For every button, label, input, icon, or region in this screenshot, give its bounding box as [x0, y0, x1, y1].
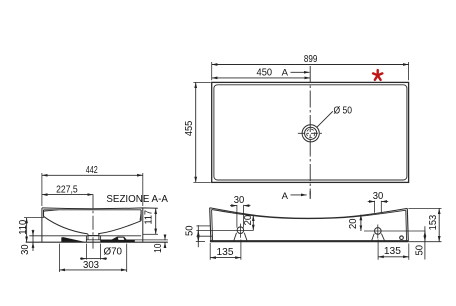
dimension 455 extension bottom [193, 181, 210, 183]
elevation bottom line [210, 240, 409, 242]
svg-text:30: 30 [373, 191, 384, 202]
svg-text:Ø70: Ø70 [104, 247, 123, 258]
elevation left edge inner [212, 210, 213, 242]
section rim second line [44, 209, 142, 211]
elevation right hole horizontal centerline [364, 230, 426, 232]
elevation left hole circle [237, 227, 244, 234]
plan inner rim rect [214, 85, 407, 180]
dimension 50 left lower tick [196, 235, 212, 237]
section marker A top arrow [291, 71, 310, 73]
dimension 153 extension top [408, 207, 441, 209]
drain leader line [317, 111, 333, 127]
section black band right [101, 240, 135, 242]
dimension 30 left extensions [236, 205, 238, 228]
dimension 303 line [59, 269, 126, 271]
dimension 117 bottom tick [143, 233, 158, 235]
dimension 110 top tick [24, 217, 44, 219]
dimension 442 extension right [142, 173, 144, 206]
dimension 10 line [164, 235, 166, 241]
dimension 442 line [42, 174, 143, 176]
dimension 50 left tick [196, 225, 210, 227]
dimension Ø70 extension right [100, 244, 102, 260]
section rim top line [42, 207, 158, 210]
dimension 450 line [212, 77, 311, 79]
elevation right edge outer [407, 208, 408, 241]
svg-text:135: 135 [217, 247, 234, 258]
section left wall inner [43, 210, 45, 217]
section marker A bottom arrow [291, 194, 307, 196]
dimension 20 right line [360, 215, 362, 231]
elevation right edge inner [405, 210, 408, 241]
dimension 30 right line and arrows [368, 201, 375, 203]
svg-text:A: A [282, 191, 289, 202]
dimension 135 left line [210, 257, 241, 259]
dimension 135 right line [378, 256, 409, 258]
section black fin left [61, 237, 85, 242]
dimension 455 line [195, 82, 197, 182]
elevation left hole vertical centerline [239, 224, 241, 238]
svg-text:227,5: 227,5 [56, 184, 78, 195]
elevation right hole vertical centerline [377, 225, 379, 239]
section left wall outer [41, 208, 43, 242]
dimension 30 line section [32, 230, 34, 251]
section drain outer wall right [100, 235, 102, 242]
section drain outer wall left [85, 235, 87, 242]
svg-text:153: 153 [428, 215, 439, 231]
elevation left foot right slant [244, 233, 247, 242]
svg-text:30: 30 [234, 195, 245, 206]
dimension 153 line [438, 208, 440, 241]
dimension 303 extension left [58, 244, 60, 272]
elevation right foot right slant [381, 234, 385, 242]
section right rim lip wedge [140, 212, 141, 220]
elevation bottom right extension [408, 241, 441, 243]
elevation left foot left slant [234, 233, 237, 242]
drain outer circle [302, 125, 319, 142]
dimension 30 section arrows [32, 231, 34, 236]
section right wall inner [140, 210, 142, 221]
dimension 899 line [212, 64, 409, 66]
section centerline [92, 194, 94, 248]
red asterisk [373, 70, 382, 80]
svg-text:SEZIONE A-A: SEZIONE A-A [106, 194, 168, 205]
dimension 899 extension left [211, 62, 213, 80]
dimension 442 extension left [41, 173, 43, 206]
section marker A bottom tick [309, 191, 311, 199]
section bowl curve left [44, 216, 88, 234]
svg-text:20: 20 [348, 218, 359, 229]
drain middle circle [305, 127, 317, 139]
svg-text:10: 10 [153, 243, 164, 253]
svg-text:30: 30 [20, 244, 31, 255]
elevation bottom left extension [196, 241, 205, 243]
svg-text:A: A [282, 67, 289, 78]
dimension 135 left extensions [209, 243, 211, 260]
section base underside right line [101, 239, 168, 241]
dimension 50 left line [197, 225, 199, 247]
section foot bump white notch [118, 238, 124, 240]
drain inner dashed circle [307, 129, 315, 137]
elevation right hole circle [375, 228, 382, 235]
dimension 227,5 line [42, 194, 93, 196]
dimension 30 right extensions [374, 201, 376, 213]
svg-text:110: 110 [18, 220, 29, 235]
dimension 899 extension right [408, 62, 410, 80]
plan centerline (section line A-A) [309, 66, 311, 195]
section base front edge line [29, 235, 141, 237]
svg-text:899: 899 [304, 54, 318, 65]
dimension 117 line [155, 208, 157, 234]
elevation top back rim curve [212, 210, 406, 219]
section bowl curve right [98, 221, 141, 234]
dimension 135 right extensions [377, 240, 379, 260]
dimension Ø70 line [80, 258, 86, 260]
svg-text:303: 303 [83, 260, 99, 271]
section drain inner wall left [87, 234, 89, 240]
drain horizontal centerline [298, 132, 324, 134]
section left rim lip wedge [44, 210, 59, 211]
elevation left hole horizontal centerline [196, 229, 253, 231]
section drain top line [88, 234, 99, 236]
plan outer rect [212, 82, 409, 182]
svg-text:135: 135 [384, 246, 401, 257]
section drain bottom line [86, 239, 100, 241]
dimension 455 extension top [193, 81, 210, 83]
elevation left edge outer [210, 208, 211, 241]
svg-text:20: 20 [243, 215, 254, 226]
svg-text:50: 50 [414, 245, 425, 256]
elevation drain outlet small circle [400, 236, 404, 240]
section drain inner wall right [98, 234, 100, 240]
section right wall outer [142, 208, 144, 242]
dimension 303 extension right [126, 244, 128, 272]
section black foot bump right [111, 237, 127, 240]
dimension 110 line [26, 218, 28, 243]
dimension 30 left line and arrows [230, 205, 237, 207]
svg-text:Ø 50: Ø 50 [334, 106, 353, 117]
dimension 20 left line [252, 216, 254, 231]
svg-text:442: 442 [86, 165, 98, 176]
svg-text:117: 117 [144, 210, 155, 225]
elevation top front rim curve [210, 208, 408, 219]
elevation right foot left slant [371, 234, 374, 242]
dimension Ø70 extension left [85, 244, 87, 260]
svg-text:455: 455 [184, 120, 195, 136]
section ground line [26, 241, 168, 243]
svg-text:450: 450 [257, 67, 273, 78]
dimension 50 right line [424, 226, 426, 259]
svg-text:50: 50 [185, 225, 196, 236]
